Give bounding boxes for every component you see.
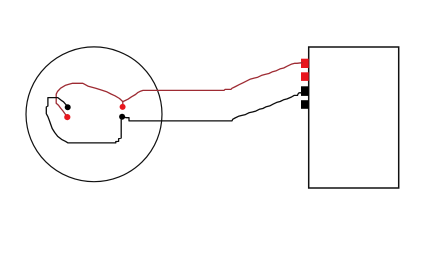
wire: black slack loop (bag) from node B around to node A — [46, 98, 121, 143]
detail circle (zoom bubble) — [26, 47, 162, 182]
terminal T4 (black, -) — [301, 100, 309, 109]
wire: red lead from terminal T1 to node C — [123, 63, 302, 104]
wire: black lead from terminal T3 to node B — [123, 93, 302, 121]
node A (black terminal dot, left) — [65, 104, 71, 110]
device box U1 — [309, 47, 399, 188]
wire: red slack loop from node C to node D — [56, 83, 123, 116]
terminal T3 (black) — [301, 86, 309, 96]
terminal T2 (red) — [301, 72, 309, 81]
node D (red terminal dot, left) — [64, 114, 70, 120]
node C (red junction dot, right) — [120, 104, 126, 110]
node B (black junction dot, right) — [119, 114, 125, 120]
terminal T1 (red, +) — [301, 59, 309, 68]
